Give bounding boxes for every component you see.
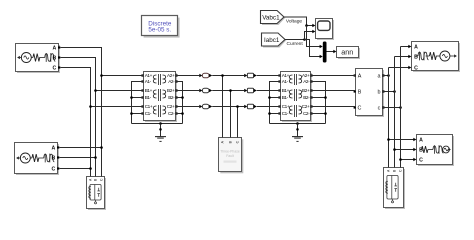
svg-text:b: b [378, 90, 381, 96]
svg-text:A: A [414, 45, 418, 51]
circuit breaker phase A1 [202, 73, 209, 77]
node voltage junction [305, 24, 308, 27]
transformer T2 three-phase transformer block [278, 72, 312, 123]
svg-text:Three-Phase: Three-Phase [220, 150, 240, 154]
circuit breaker phase C2 [247, 104, 253, 108]
transformer T1 three-phase transformer block [141, 72, 177, 123]
ann label block [337, 47, 361, 60]
node bus A / T1 [100, 74, 103, 77]
wire T2 B2+ to meas B [311, 90, 356, 92]
svg-text:A1+: A1+ [282, 73, 290, 78]
wire T2 B2- to neutral [311, 97, 326, 99]
svg-text:A2+: A2+ [302, 73, 310, 78]
wire T2 neutral bottom [270, 123, 326, 125]
wire bus1 to source3 C [389, 67, 409, 69]
svg-text:C1+: C1+ [145, 104, 153, 109]
wire phase B line middle [212, 90, 244, 92]
svg-text:A2+: A2+ [167, 73, 175, 78]
load L2 (bottom right) three-phase parallel RLC load [384, 168, 406, 210]
svg-text:A: A [52, 146, 56, 152]
svg-text:B1-: B1- [145, 95, 152, 100]
wire source1 C to bus [61, 68, 91, 107]
svg-text:Voltage: Voltage [286, 19, 303, 25]
load L1 (bottom left) three-phase parallel RLC load [87, 177, 107, 211]
wire mux to ann [327, 51, 334, 53]
svg-text:B1+: B1+ [145, 88, 153, 93]
svg-text:C: C [358, 106, 362, 112]
ground under T1 [160, 124, 162, 137]
From tag Vabc1 [261, 11, 286, 26]
bus right 3 vertical [400, 47, 402, 168]
wire T1 C1- to neutral [132, 113, 144, 115]
wire phase A line T1 to breaker [176, 75, 200, 77]
wire T1 A1- to neutral [132, 82, 144, 124]
svg-text:a: a [378, 74, 381, 80]
svg-text:A2-: A2- [303, 79, 310, 84]
wire T2 B1- to neutral [270, 97, 281, 99]
svg-text:Current: Current [286, 41, 303, 47]
wire T2 A2- to neutral [311, 82, 326, 124]
wire T1 C2- to neutral [176, 113, 183, 115]
svg-text:B1+: B1+ [282, 88, 290, 93]
svg-text:B2+: B2+ [167, 88, 175, 93]
svg-text:c: c [378, 106, 381, 112]
wire current to mux input 2 [305, 40, 321, 57]
From tag Iabc1 [262, 33, 287, 48]
svg-text:C2+: C2+ [167, 104, 175, 109]
three-phase source 4 (bottom right) [417, 135, 455, 167]
scope block [316, 19, 335, 41]
svg-text:C2-: C2- [303, 111, 310, 116]
svg-text:Vabc1: Vabc1 [262, 14, 280, 21]
circuit breaker phase B2 [247, 88, 253, 92]
wire phase C line T1 to breaker [176, 106, 200, 108]
svg-text:C: C [53, 66, 57, 72]
wire T1 B2- to neutral [176, 97, 183, 99]
wire bus C to T1 C1+ [91, 106, 144, 108]
svg-text:A: A [358, 74, 362, 80]
wire bus3 to source4 C [401, 159, 414, 161]
wire bus2 to source4 B [395, 149, 414, 151]
wire source1 A to bus [61, 48, 102, 76]
bus A vertical (left) [101, 76, 103, 177]
wire phase A line to T2 [257, 75, 281, 77]
svg-text:A: A [53, 46, 57, 52]
node bus C / T1 [89, 105, 92, 108]
wire source2 C to bus [60, 168, 91, 170]
circuit breaker phase B1 [202, 88, 209, 92]
wire meas a to bus [383, 75, 389, 77]
svg-text:B: B [52, 156, 56, 162]
node source2 A junction [100, 146, 103, 149]
svg-text:C1-: C1- [145, 111, 152, 116]
node current junction [303, 38, 306, 41]
wire phase C line middle [212, 106, 244, 108]
bus C vertical (left) [90, 107, 92, 177]
wire tap C to fault block [237, 107, 239, 138]
wire bus A to T1 A1+ [102, 75, 144, 77]
svg-text:C: C [419, 158, 423, 164]
circuit breaker phase C1 [202, 104, 209, 108]
svg-text:5e-05 s.: 5e-05 s. [148, 27, 171, 34]
wire Vabc1 to scope input 1 [284, 17, 313, 26]
svg-text:A1+: A1+ [145, 73, 153, 78]
svg-text:B: B [358, 90, 362, 96]
wire source2 B to bus [60, 157, 96, 159]
wire phase A line middle [212, 75, 244, 77]
svg-text:C1+: C1+ [282, 104, 290, 109]
wire T1 B1- to neutral [132, 97, 144, 99]
mux [323, 42, 327, 63]
wire bus2 to source3 B [395, 56, 409, 58]
svg-text:A1-: A1- [282, 79, 289, 84]
wire voltage to mux input 1 [307, 26, 321, 47]
node source2 B junction [94, 156, 97, 159]
bus right 1 vertical [388, 68, 390, 168]
three-phase source 3 (top right) [412, 42, 461, 73]
node T2 ground junction [296, 122, 299, 125]
bus right 2 vertical [394, 57, 396, 168]
svg-text:C2+: C2+ [302, 104, 310, 109]
wire T2 A2+ to meas A [311, 75, 356, 77]
wire phase C line to T2 [257, 106, 281, 108]
ground under T2 [297, 124, 299, 137]
svg-text:B2-: B2- [303, 95, 310, 100]
svg-text:ann: ann [341, 47, 353, 56]
svg-text:C: C [52, 167, 56, 173]
wire T2 C2+ to meas C [311, 106, 356, 108]
svg-text:A2-: A2- [168, 79, 175, 84]
wire tap B to fault block [230, 91, 232, 138]
wire T1 neutral bottom [132, 123, 183, 125]
wire meas b to bus [383, 91, 395, 93]
wire current to scope input 2 [305, 32, 313, 40]
svg-text:C: C [414, 66, 418, 72]
wire phase B line to T2 [257, 90, 281, 92]
svg-text:C1-: C1- [282, 111, 289, 116]
wire Iabc1 to junction [285, 39, 305, 41]
svg-text:B: B [419, 148, 423, 154]
powergui block (Discrete 5e-05 s.) [142, 16, 180, 38]
svg-text:B1-: B1- [282, 95, 289, 100]
wire T1 A2- to neutral [176, 82, 183, 124]
svg-text:B2-: B2- [168, 95, 175, 100]
svg-text:C2-: C2- [168, 111, 175, 116]
wire phase B line T1 to breaker [176, 90, 200, 92]
wire bus3 to source3 A [401, 46, 409, 48]
node bus B / T1 [94, 89, 97, 92]
node T1 ground junction [159, 122, 162, 125]
wire T2 A1- to neutral [270, 82, 281, 124]
wire meas c to bus [383, 107, 401, 109]
svg-text:Iabc1: Iabc1 [264, 37, 280, 44]
wire tap A to fault block [222, 76, 224, 138]
svg-text:A1-: A1- [145, 79, 152, 84]
three-phase source 1 (top left) [16, 44, 61, 74]
svg-text:B: B [414, 55, 418, 61]
circuit breaker phase A2 [247, 73, 253, 77]
three-phase fault block [219, 138, 244, 174]
node source2 C junction [89, 167, 92, 170]
three-phase V-I measurement block [354, 69, 385, 118]
three-phase source 2 (bottom left) [15, 143, 60, 176]
wire source1 B to bus [61, 58, 96, 91]
wire source2 A to bus [60, 147, 102, 149]
wire T2 C1- to neutral [270, 113, 281, 115]
wire bus1 to source4 A [389, 139, 414, 141]
wire T2 C2- to neutral [311, 113, 326, 115]
svg-text:A: A [419, 138, 423, 144]
svg-text:Fault: Fault [226, 154, 234, 158]
wire bus B to T1 B1+ [96, 90, 144, 92]
svg-text:B2+: B2+ [302, 88, 310, 93]
svg-text:B: B [53, 56, 57, 62]
bus B vertical (left) [95, 91, 97, 177]
